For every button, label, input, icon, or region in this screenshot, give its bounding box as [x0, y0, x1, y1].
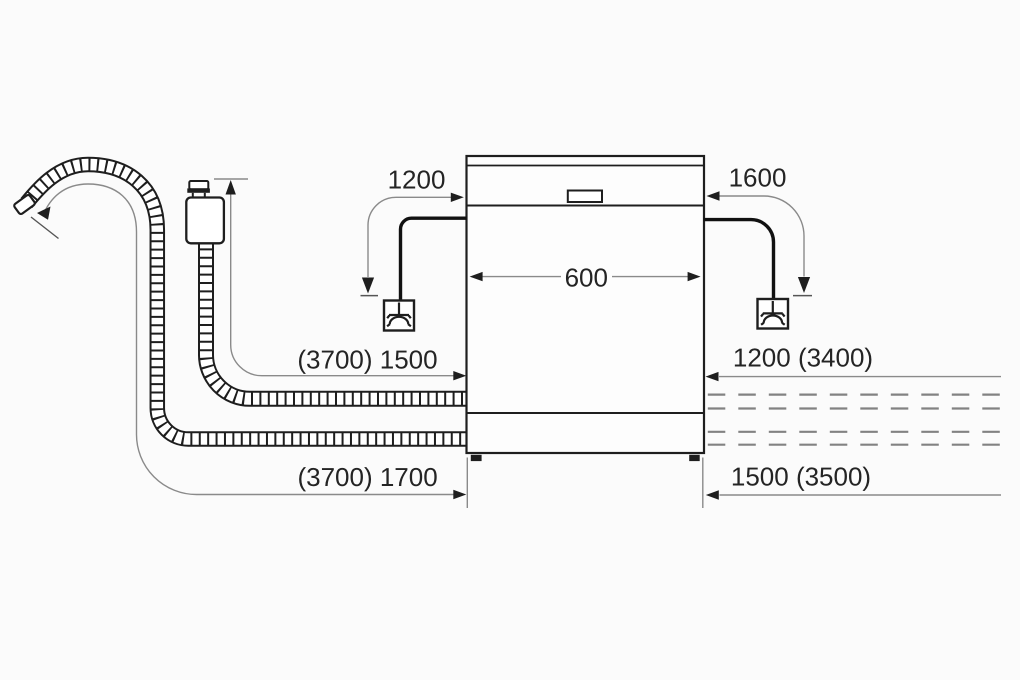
plinth line — [467, 412, 705, 414]
svg-text:(3700) 1700: (3700) 1700 — [297, 462, 437, 492]
plug icon right — [761, 301, 785, 325]
arrowhead down 1200 — [362, 278, 374, 294]
svg-text:600: 600 — [565, 263, 608, 293]
svg-text:1200 (3400): 1200 (3400) — [733, 343, 873, 373]
supply hose guide line (3700) 1500 with top tick — [214, 179, 454, 376]
dimension line 1200 (3400) — [719, 376, 1001, 378]
plug box right — [758, 299, 789, 329]
drain hose (corrugated) — [27, 165, 467, 440]
svg-text:(3700) 1500: (3700) 1500 — [297, 345, 437, 375]
arrowhead up at aquastop tick — [226, 180, 236, 195]
control panel line — [467, 205, 705, 207]
aquastop black band — [187, 188, 210, 192]
svg-text:1500 (3500): 1500 (3500) — [731, 462, 871, 492]
ground tick left — [361, 295, 379, 297]
ground tick right — [793, 295, 812, 297]
power cord left — [401, 218, 467, 301]
arrowhead (3700) 1500 at cabinet — [453, 371, 466, 380]
svg-text:1600: 1600 — [729, 163, 787, 193]
dimension line 1500 (3500) — [720, 494, 1002, 496]
arrowhead 1600 at cabinet — [707, 191, 720, 200]
dishwasher body — [467, 156, 705, 453]
dashed lines right (hose continuation) — [708, 395, 1001, 445]
dimension curve 1200 (left power cord length) — [368, 197, 452, 277]
aquastop valve box — [186, 198, 224, 244]
drain hose guide line (3700) 1700 — [43, 184, 454, 495]
left foot — [471, 455, 482, 461]
aquastop neck — [192, 193, 194, 198]
bottom tick right — [702, 458, 704, 509]
aquastop cap — [189, 181, 208, 189]
plug box left — [384, 301, 414, 331]
arrowhead 1200 at cabinet — [451, 193, 464, 202]
svg-text:1200: 1200 — [388, 165, 446, 195]
supply hose (corrugated) — [206, 240, 467, 399]
600 dimension line — [481, 276, 689, 278]
power cord right — [704, 220, 774, 300]
arrowhead (3700) 1700 at cabinet — [453, 490, 466, 499]
arrowhead down 1600 — [798, 277, 810, 293]
drain hose nozzle — [13, 194, 35, 215]
plug icon left — [387, 303, 411, 327]
dishwasher top edge line — [467, 165, 705, 167]
display window — [568, 191, 602, 203]
arrowhead at drain nozzle — [37, 207, 51, 220]
bottom tick left — [466, 458, 468, 509]
dimension curve 1600 (right power cord length) — [719, 196, 804, 277]
diagonal leader line under nozzle — [31, 217, 59, 239]
right foot — [689, 455, 700, 461]
